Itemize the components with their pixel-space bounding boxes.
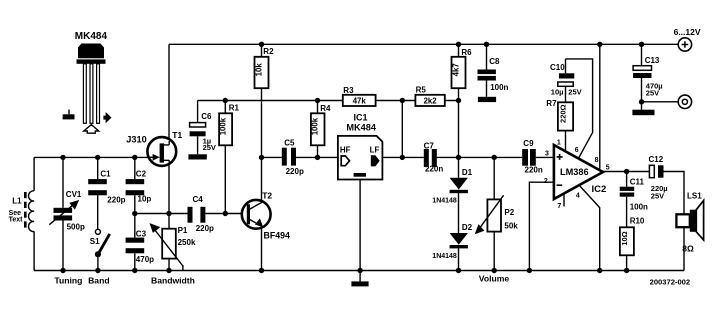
wire LM386 pin7 stub (563, 193, 565, 206)
svg-text:C10: C10 (550, 63, 565, 72)
svg-text:P2: P2 (504, 208, 514, 217)
svg-text:S1: S1 (90, 237, 100, 246)
svg-text:7: 7 (557, 203, 561, 210)
svg-text:10p: 10p (138, 195, 152, 204)
svg-text:220p: 220p (286, 167, 304, 176)
svg-text:J310: J310 (126, 135, 146, 145)
svg-text:T1: T1 (172, 130, 182, 140)
wire L1 branch (33, 157, 35, 270)
wire R2 branch / T2 collector (261, 44, 263, 270)
svg-text:Tuning: Tuning (54, 276, 82, 286)
svg-text:R7: R7 (546, 99, 557, 108)
capacitor C13 electrolytic (633, 56, 663, 98)
svg-text:R1: R1 (229, 103, 240, 112)
wire R1 branch (224, 101, 226, 214)
ground bar for C13 (632, 110, 654, 116)
inductor L1 with core (9, 191, 34, 232)
capacitor C2 (126, 170, 152, 204)
svg-text:6: 6 (575, 147, 579, 154)
diode D2 1N4148 (432, 223, 472, 260)
svg-text:R5: R5 (416, 85, 427, 94)
MK484 package drawing (TO-92) (75, 31, 108, 123)
svg-text:C11: C11 (630, 178, 645, 187)
svg-text:220n: 220n (525, 166, 543, 175)
svg-text:Band: Band (88, 276, 109, 286)
potentiometer P1 (150, 223, 196, 270)
svg-text:Volume: Volume (479, 274, 510, 284)
pin number 8 (595, 157, 599, 164)
svg-text:IC1: IC1 (354, 112, 368, 122)
wire R3R5 junction down to IC1 output (401, 101, 403, 158)
capacitor C4 (188, 195, 215, 233)
svg-text:1N4148: 1N4148 (432, 198, 457, 205)
svg-text:C4: C4 (193, 195, 204, 204)
wire LM386 output pin5 to C12 and speaker (602, 172, 684, 271)
wire 0V line to minus terminal (642, 101, 679, 103)
svg-text:5: 5 (606, 164, 610, 171)
svg-text:220n: 220n (425, 165, 443, 174)
capacitor C8 (478, 57, 509, 92)
ground bar main (below IC1) (351, 271, 368, 287)
switch S1 (90, 229, 110, 257)
svg-text:1: 1 (557, 139, 561, 146)
svg-text:200372-002: 200372-002 (650, 277, 691, 286)
svg-text:L1: L1 (12, 197, 22, 206)
junction dots bottom bus (60, 268, 629, 273)
MK484 pin input arrow (up hollow) (84, 125, 99, 134)
pin number 4 (576, 192, 580, 199)
svg-text:C6: C6 (201, 112, 212, 121)
svg-text:250k: 250k (178, 238, 196, 247)
wire C8 branch (486, 44, 488, 97)
svg-text:25V: 25V (203, 143, 216, 152)
svg-text:C1: C1 (100, 170, 111, 179)
junction dots top bus (259, 42, 644, 47)
svg-text:Text: Text (9, 217, 24, 224)
resistor R10 10 ohm (620, 216, 645, 255)
loudspeaker LS1 (676, 192, 703, 254)
svg-text:10Ω: 10Ω (620, 231, 629, 245)
svg-text:25V: 25V (651, 191, 664, 200)
svg-text:4: 4 (576, 192, 580, 199)
svg-text:BF494: BF494 (264, 231, 291, 241)
capacitor C6 electrolytic (190, 112, 216, 152)
op-amp U IC2 LM386 triangle (554, 145, 606, 199)
svg-text:LS1: LS1 (687, 192, 702, 201)
svg-text:2: 2 (544, 178, 548, 185)
svg-text:47k: 47k (353, 97, 367, 106)
wire CV1 branch (62, 157, 64, 270)
wire top supply bus (169, 43, 678, 45)
svg-text:MK484: MK484 (75, 31, 108, 42)
wire audio line right of IC1 with C7 (382, 156, 554, 158)
resistor R5 2k2 (415, 85, 444, 106)
pin number 3 (545, 150, 549, 157)
volume label (479, 274, 510, 284)
svg-text:10k: 10k (255, 63, 264, 77)
svg-text:C3: C3 (136, 230, 147, 239)
wire audio line left of IC1 with C5 (262, 156, 338, 158)
wire LM386 pin4 to bus (580, 186, 600, 271)
wire C13 branch (641, 44, 643, 109)
svg-text:100k: 100k (219, 117, 228, 135)
wire T1 drain to top bus (168, 44, 170, 141)
svg-text:C8: C8 (489, 57, 500, 66)
transistor T2 BF494 (242, 191, 290, 241)
resistor R6 4k7 (452, 48, 473, 88)
junction dot C13 0V (639, 99, 644, 104)
pin number 2 (544, 178, 548, 185)
variable capacitor CV1 (49, 190, 85, 232)
capacitor C10 electrolytic (550, 63, 582, 96)
svg-text:HF: HF (340, 146, 351, 155)
wire T2 base line with C4 (135, 213, 243, 215)
junction dot output line (624, 169, 629, 174)
section labels bottom left (54, 275, 195, 285)
svg-text:C2: C2 (136, 170, 147, 179)
wire T1 source down to base line (168, 163, 170, 214)
wire bottom ground bus (34, 270, 684, 272)
capacitor C5 (282, 139, 304, 176)
svg-text:8Ω: 8Ω (682, 243, 694, 253)
wire R4 branch (317, 101, 319, 158)
wire RF tuned-circuit rail / T1 gate line (34, 156, 150, 158)
capacitor C7 (424, 141, 444, 173)
svg-text:P1: P1 (178, 226, 188, 235)
svg-text:220p: 220p (196, 224, 214, 233)
svg-text:25V: 25V (646, 88, 659, 97)
pin number 7 (557, 203, 561, 210)
capacitor C9 (522, 139, 543, 175)
MK484 pin output arrow (right) (103, 112, 111, 123)
svg-text:MK484: MK484 (346, 122, 377, 132)
MK484 pin ground symbol (63, 110, 75, 120)
junction dots base line (132, 211, 228, 216)
svg-text:C7: C7 (424, 141, 435, 150)
svg-text:R10: R10 (630, 216, 645, 225)
capacitor C11 (620, 178, 648, 212)
drawing number (650, 277, 691, 286)
svg-text:6...12V: 6...12V (674, 27, 701, 37)
svg-text:C13: C13 (645, 56, 660, 65)
svg-text:100n: 100n (630, 203, 648, 212)
pin number 5 (606, 164, 610, 171)
capacitor C12 electrolytic (649, 155, 668, 200)
wire C6 branch (197, 101, 199, 155)
wire C10 top jog to pin6 (566, 59, 593, 159)
svg-text:1N4148: 1N4148 (432, 253, 457, 260)
svg-text:C5: C5 (284, 139, 295, 148)
svg-text:C9: C9 (523, 139, 534, 148)
svg-text:100k: 100k (311, 117, 320, 135)
svg-text:R2: R2 (263, 47, 274, 56)
svg-text:8: 8 (595, 157, 599, 164)
svg-text:Bandwidth: Bandwidth (151, 275, 195, 285)
svg-text:R3: R3 (343, 86, 354, 95)
svg-text:50k: 50k (504, 222, 518, 231)
wire P1 branch (168, 214, 170, 271)
potentiometer P2 volume (475, 195, 519, 234)
junction dots signal line (60, 155, 497, 160)
wire top bus to pin8 (599, 44, 601, 169)
ground bar for C6 (188, 154, 206, 159)
wire C2/C3 branch (134, 157, 136, 270)
ground bar for C8 (478, 97, 496, 102)
svg-text:10µ: 10µ (551, 87, 564, 96)
pin number 6 (575, 147, 579, 154)
wire R6/D1/D2 branch (458, 44, 460, 270)
wire P2 branch (493, 157, 495, 270)
svg-text:4k7: 4k7 (452, 63, 461, 76)
pin number 1 (557, 139, 561, 146)
minus supply terminal (678, 95, 691, 108)
svg-text:LF: LF (370, 146, 380, 155)
svg-text:220Ω: 220Ω (559, 104, 568, 123)
resistor R3 47k (343, 86, 376, 106)
svg-text:500p: 500p (67, 223, 85, 232)
svg-text:T2: T2 (262, 191, 272, 201)
svg-text:D2: D2 (462, 223, 473, 232)
transistor T1 J310 JFET (126, 130, 182, 166)
wire IC1 ground down to bus (359, 180, 361, 271)
wire pin1 R7 C10 branch (565, 59, 567, 151)
svg-text:R4: R4 (320, 104, 331, 113)
resistor R7 220 ohm (546, 99, 573, 131)
capacitor C3 (126, 230, 155, 264)
wire C11/R10 zobel branch (626, 172, 628, 271)
wire C1/S1 branch (97, 157, 99, 270)
svg-text:IC2: IC2 (592, 184, 607, 195)
svg-text:220p: 220p (107, 195, 125, 204)
svg-text:C12: C12 (649, 155, 664, 164)
IC1 MK484 box (338, 112, 383, 179)
svg-text:25V: 25V (568, 87, 581, 96)
wire LM386 pin2 to bus (529, 182, 554, 270)
svg-text:D1: D1 (462, 168, 473, 177)
wire bias rail y100 (198, 100, 459, 102)
svg-text:CV1: CV1 (66, 190, 82, 199)
plus supply terminal (674, 27, 701, 51)
diode D1 1N4148 (432, 168, 472, 205)
svg-text:100n: 100n (490, 83, 508, 92)
svg-text:3: 3 (545, 150, 549, 157)
junction dots bias rail (223, 98, 462, 103)
svg-text:LM386: LM386 (560, 167, 589, 177)
capacitor C1 (88, 170, 125, 205)
svg-text:2k2: 2k2 (424, 97, 438, 106)
svg-text:470p: 470p (136, 255, 154, 264)
resistor R1 100k (219, 103, 240, 145)
svg-text:R6: R6 (461, 48, 472, 57)
resistor R2 10k (255, 47, 275, 88)
resistor R4 100k (311, 104, 331, 145)
